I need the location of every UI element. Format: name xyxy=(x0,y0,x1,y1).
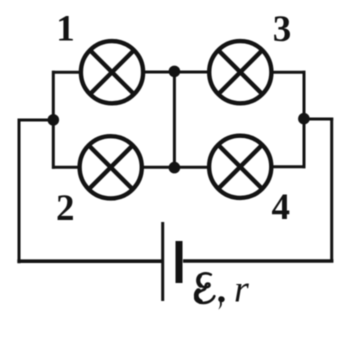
svg-text:1: 1 xyxy=(56,9,75,50)
svg-text:r: r xyxy=(234,269,249,311)
svg-text:3: 3 xyxy=(273,9,292,50)
svg-text:2: 2 xyxy=(56,188,75,229)
svg-text:4: 4 xyxy=(272,187,291,228)
